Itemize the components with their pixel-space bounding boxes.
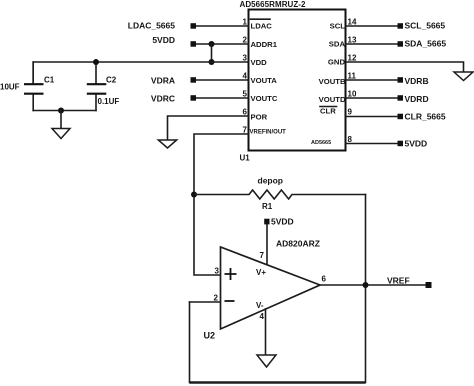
- svg-text:5VDD: 5VDD: [271, 217, 294, 227]
- wire output to VREF: [320, 284, 426, 286]
- svg-text:LDAC_5665: LDAC_5665: [128, 21, 176, 31]
- wire POR to ground: [168, 116, 249, 140]
- svg-text:VDRC: VDRC: [151, 94, 175, 104]
- ground (capacitors): [52, 129, 70, 139]
- svg-text:5VDD: 5VDD: [152, 35, 175, 45]
- svg-text:VDRB: VDRB: [405, 76, 429, 86]
- net VREF: [387, 276, 432, 289]
- svg-text:13: 13: [348, 36, 357, 45]
- node 5VDD junction: [209, 41, 215, 47]
- svg-text:5VDD: 5VDD: [405, 139, 428, 149]
- svg-text:3: 3: [215, 267, 220, 276]
- U1 pin 13 SDA: [329, 36, 357, 49]
- wire pin 8 to 5VDD: [346, 143, 398, 145]
- svg-text:VREF: VREF: [387, 276, 410, 286]
- svg-text:6: 6: [243, 108, 248, 117]
- svg-text:4: 4: [243, 72, 248, 81]
- wire feedback left vertical: [189, 302, 191, 383]
- U1 pin 10 VOUTD: [319, 90, 357, 105]
- svg-text:3: 3: [243, 54, 248, 63]
- svg-text:CLR_5665: CLR_5665: [405, 112, 446, 122]
- wire to inverting input: [190, 301, 221, 303]
- svg-text:U2: U2: [204, 331, 216, 341]
- svg-text:SDA_5665: SDA_5665: [405, 39, 447, 49]
- svg-text:5: 5: [243, 90, 248, 99]
- U1 pin 9 CLR: [320, 107, 353, 117]
- svg-text:VREFIN/OUT: VREFIN/OUT: [250, 130, 287, 136]
- net VDRB: [398, 76, 429, 86]
- svg-text:SCL: SCL: [330, 22, 346, 31]
- wire pin 11 to VDRB: [346, 79, 398, 81]
- svg-text:VDRA: VDRA: [151, 75, 175, 85]
- svg-text:VOUTA: VOUTA: [251, 76, 278, 85]
- wire pin 7 VREFIN/OUT down to op-amp + input: [194, 134, 249, 275]
- svg-text:4: 4: [260, 312, 265, 321]
- wire VDD rail (caps to pin 3): [33, 62, 248, 83]
- net VDRD: [398, 94, 429, 104]
- svg-text:2: 2: [214, 294, 219, 303]
- svg-text:10UF: 10UF: [0, 83, 20, 92]
- U1 pin 12 GND: [328, 54, 357, 67]
- resistor R1 depop: [194, 176, 366, 212]
- wire LDAC_5665 to pin 1: [196, 25, 249, 27]
- wire pin 14 to SCL_5665: [346, 25, 398, 27]
- svg-text:U1: U1: [240, 154, 251, 163]
- ground (op-amp): [257, 355, 276, 367]
- wire pin 13 to SDA_5665: [346, 43, 398, 45]
- U1 pin 11 VOUTB: [319, 72, 357, 87]
- U1 pin 5 VOUTC: [243, 90, 278, 104]
- wire to ground: [60, 111, 62, 129]
- wire feedback right vertical: [365, 195, 367, 383]
- wire pin 12 GND to ground: [346, 62, 464, 72]
- wire op-amp V- pin 4 to ground: [265, 309, 267, 355]
- node C2 top junction: [93, 59, 99, 65]
- svg-text:depop: depop: [258, 176, 284, 186]
- capacitor C1: [0, 62, 55, 111]
- svg-text:10: 10: [348, 90, 357, 99]
- net CLR_5665: [398, 112, 446, 122]
- U1 pin 4 VOUTA: [243, 72, 278, 86]
- svg-text:14: 14: [348, 18, 357, 27]
- wire capacitor bottoms: [33, 110, 96, 112]
- svg-text:VOUTD: VOUTD: [319, 95, 346, 104]
- svg-text:CLR: CLR: [320, 107, 336, 116]
- node VDD rail junction: [209, 59, 215, 65]
- net 5VDD (op-amp supply): [264, 217, 293, 227]
- svg-text:AD5665: AD5665: [311, 140, 331, 146]
- svg-text:VOUTC: VOUTC: [251, 94, 278, 103]
- ground (POR): [158, 140, 176, 148]
- net 5VDD (pin 8): [398, 139, 428, 149]
- U1 pin 3 VDD: [243, 54, 268, 68]
- svg-text:LDAC: LDAC: [251, 22, 273, 31]
- svg-text:7: 7: [260, 251, 265, 260]
- svg-text:ADDR1: ADDR1: [251, 40, 278, 49]
- svg-text:POR: POR: [251, 113, 268, 122]
- net LDAC_5665: [128, 21, 196, 31]
- node cap ground junction: [58, 108, 64, 114]
- svg-text:VDD: VDD: [251, 58, 268, 67]
- svg-text:GND: GND: [328, 58, 346, 67]
- svg-text:1: 1: [243, 18, 248, 27]
- wire pin 10 to VDRD: [346, 97, 398, 99]
- svg-text:8: 8: [348, 135, 353, 144]
- net SCL_5665: [398, 21, 446, 31]
- wire VDRA to pin 4: [196, 79, 249, 81]
- svg-text:AD820ARZ: AD820ARZ: [276, 239, 320, 249]
- IC U1 AD5665RMRUZ-2 body: [240, 0, 346, 163]
- svg-text:7: 7: [243, 126, 248, 135]
- svg-text:AD5665RMRUZ-2: AD5665RMRUZ-2: [240, 0, 306, 9]
- svg-text:11: 11: [348, 72, 357, 81]
- svg-text:R1: R1: [262, 202, 273, 211]
- svg-text:VOUTB: VOUTB: [319, 77, 346, 86]
- net 5VDD (left): [152, 35, 196, 47]
- U1 pin 6 POR: [243, 108, 268, 122]
- svg-text:V+: V+: [256, 268, 266, 277]
- wire 5VDD down to VDD rail: [211, 44, 213, 62]
- svg-text:VDRD: VDRD: [405, 94, 429, 104]
- svg-text:C1: C1: [44, 76, 55, 85]
- net VDRA: [151, 75, 196, 85]
- svg-text:SCL_5665: SCL_5665: [405, 21, 446, 31]
- svg-text:9: 9: [348, 108, 353, 117]
- U1 pin 7 VREFIN/OUT: [243, 126, 287, 136]
- U1 pin 14 SCL: [330, 18, 357, 31]
- net SDA_5665: [398, 39, 447, 49]
- svg-text:0.1UF: 0.1UF: [98, 97, 120, 106]
- wire VDRC to pin 5: [196, 97, 249, 99]
- svg-text:V-: V-: [256, 301, 264, 310]
- node VREF feedback junction: [191, 192, 197, 198]
- net VDRC: [151, 94, 196, 104]
- ground (GND pin): [454, 72, 473, 81]
- svg-text:12: 12: [348, 54, 357, 63]
- svg-text:6: 6: [322, 275, 327, 284]
- U1 pin 1 LDAC: [243, 18, 273, 31]
- node output junction: [363, 282, 369, 288]
- U1 pin 2 ADDR1: [243, 36, 278, 50]
- svg-text:SDA: SDA: [329, 40, 346, 49]
- wire pin 9 to CLR_5665: [346, 116, 398, 118]
- svg-text:C2: C2: [106, 76, 117, 85]
- U1 pin 8: [348, 135, 353, 144]
- svg-text:2: 2: [243, 36, 248, 45]
- wire feedback bottom: [190, 381, 366, 383]
- op-amp U2 AD820ARZ: [204, 239, 327, 341]
- wire 5VDD to op-amp V+ pin 7: [266, 224, 268, 264]
- capacitor C2: [87, 62, 120, 111]
- wire 5VDD to pin 2: [196, 43, 249, 45]
